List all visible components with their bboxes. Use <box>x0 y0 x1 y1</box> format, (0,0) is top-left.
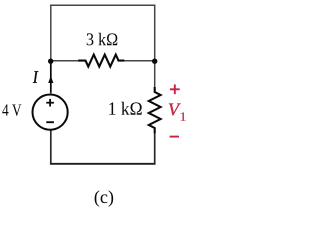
wire: right vertical lower (R2 bottom to bottom wire) <box>154 133 156 165</box>
source plus sign <box>46 102 54 104</box>
node A (left junction dot) <box>48 59 53 64</box>
node B (right junction dot) <box>152 59 157 64</box>
wire: left vertical (source bottom to bottom wire) <box>50 130 52 164</box>
voltage source 4V (circle) <box>33 95 68 130</box>
label 1 kOhm <box>109 102 141 115</box>
current arrow I shaft <box>50 63 52 93</box>
current arrow I head (pointing up) <box>48 76 53 83</box>
wire: right vertical upper (top corner to R2 top) <box>154 5 156 88</box>
wire: middle horizontal right (R1 to node B) <box>124 60 155 62</box>
resistor R1 3kohm (horizontal zigzag with lead stubs) <box>78 55 124 67</box>
source minus sign <box>46 121 54 123</box>
caption (c) <box>95 190 114 206</box>
wire: left vertical (top corner down to source top) <box>50 5 52 94</box>
label V1 (red italic V) <box>169 104 181 116</box>
label I <box>33 71 38 83</box>
wire: top horizontal <box>50 4 155 6</box>
label V1 minus polarity (red) <box>170 136 179 138</box>
resistor R2 1kohm (vertical zigzag with lead stubs) <box>149 87 161 133</box>
label V1 subscript 1 (red) <box>180 112 186 121</box>
wire: middle horizontal left (node A to R1) <box>51 60 80 62</box>
wire: bottom horizontal <box>50 163 156 165</box>
label 3 kOhm <box>87 33 118 46</box>
label V1 plus polarity (red) <box>170 88 180 90</box>
label 4 V <box>2 104 21 116</box>
